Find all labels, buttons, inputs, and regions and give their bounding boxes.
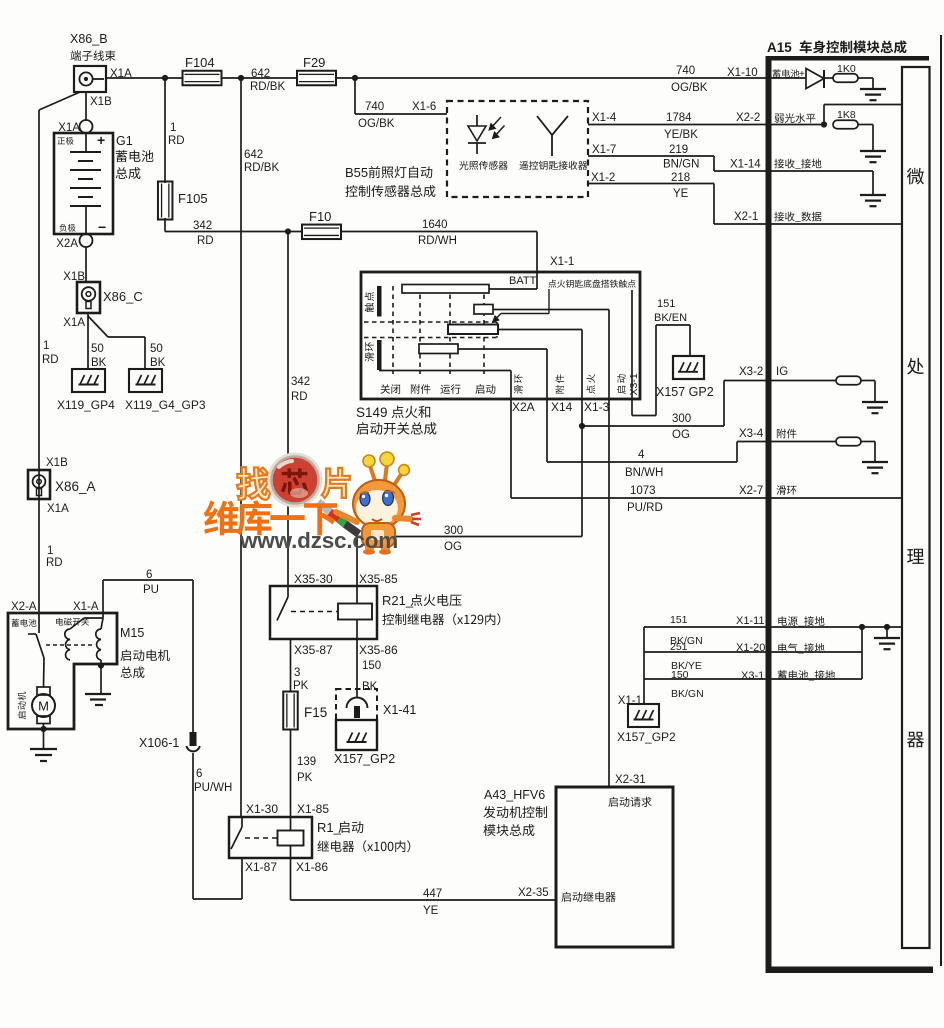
svg-text:X1-20: X1-20 <box>736 642 765 654</box>
svg-text:X86_B: X86_B <box>70 32 108 46</box>
svg-text:−: − <box>98 219 106 235</box>
svg-text:BN/GN: BN/GN <box>663 159 699 171</box>
svg-text:1: 1 <box>47 545 53 557</box>
svg-text:X1-A: X1-A <box>73 601 99 613</box>
svg-text:447: 447 <box>423 888 442 900</box>
svg-text:X86_C: X86_C <box>103 289 143 304</box>
svg-text:X119_G4_GP3: X119_G4_GP3 <box>125 398 206 412</box>
svg-text:RD: RD <box>291 391 308 403</box>
svg-text:218: 218 <box>671 172 690 184</box>
svg-text:150: 150 <box>362 660 381 672</box>
svg-text:X157_GP2: X157_GP2 <box>334 752 395 766</box>
svg-text:X1-86: X1-86 <box>296 860 328 874</box>
svg-text:M15: M15 <box>120 626 144 640</box>
svg-text:X3-1: X3-1 <box>628 373 640 395</box>
svg-text:50: 50 <box>150 343 163 355</box>
svg-text:342: 342 <box>193 220 212 232</box>
svg-text:X1-3: X1-3 <box>584 400 610 414</box>
svg-text:OG: OG <box>672 429 690 441</box>
svg-text:219: 219 <box>669 144 688 156</box>
svg-text:X1B: X1B <box>63 271 85 283</box>
svg-text:X2A: X2A <box>56 238 78 250</box>
svg-text:X2A: X2A <box>512 400 535 414</box>
svg-text:151: 151 <box>670 614 688 626</box>
svg-text:6: 6 <box>196 768 202 780</box>
svg-text:A43_HFV6: A43_HFV6 <box>484 788 545 802</box>
svg-text:X1-11: X1-11 <box>736 615 765 627</box>
svg-text:1K8: 1K8 <box>837 109 856 121</box>
svg-text:X1-2: X1-2 <box>591 172 615 184</box>
svg-text:1784: 1784 <box>666 112 692 124</box>
svg-text:X1-6: X1-6 <box>412 101 436 113</box>
svg-text:X1-87: X1-87 <box>245 860 277 874</box>
svg-text:+: + <box>97 132 105 148</box>
svg-text:M: M <box>38 699 49 714</box>
svg-text:OG/BK: OG/BK <box>671 82 708 94</box>
svg-text:X1-30: X1-30 <box>246 802 278 816</box>
svg-text:PU/RD: PU/RD <box>627 502 663 514</box>
svg-text:PK: PK <box>293 680 309 692</box>
svg-text:1: 1 <box>170 122 176 134</box>
svg-text:X86_A: X86_A <box>55 479 96 494</box>
svg-text:X35-30: X35-30 <box>294 572 333 586</box>
svg-text:YE: YE <box>423 905 439 917</box>
svg-text:1073: 1073 <box>630 485 656 497</box>
svg-text:642: 642 <box>244 149 263 161</box>
svg-text:RD/BK: RD/BK <box>244 162 279 174</box>
svg-text:X3-2: X3-2 <box>739 366 763 378</box>
svg-text:1640: 1640 <box>422 219 448 231</box>
svg-text:F104: F104 <box>185 55 215 70</box>
svg-text:342: 342 <box>291 376 310 388</box>
svg-text:X2-A: X2-A <box>11 601 37 613</box>
svg-text:X35-85: X35-85 <box>359 572 398 586</box>
svg-text:150: 150 <box>671 669 689 681</box>
svg-text:PK: PK <box>297 772 313 784</box>
svg-text:X14: X14 <box>551 400 573 414</box>
svg-text:X106-1: X106-1 <box>139 736 179 750</box>
svg-text:X157_GP2: X157_GP2 <box>617 730 676 744</box>
svg-text:BN/WH: BN/WH <box>625 467 663 479</box>
svg-text:BK: BK <box>362 681 378 693</box>
svg-text:RD/BK: RD/BK <box>250 81 285 93</box>
svg-text:X1-1: X1-1 <box>550 256 574 268</box>
svg-text:OG: OG <box>444 541 462 553</box>
svg-text:YE/BK: YE/BK <box>664 129 698 141</box>
svg-text:RD: RD <box>46 557 63 569</box>
svg-text:F10: F10 <box>309 209 331 224</box>
svg-text:X2-7: X2-7 <box>739 485 763 497</box>
svg-text:1K0: 1K0 <box>837 63 856 75</box>
svg-text:X1-10: X1-10 <box>727 67 758 79</box>
svg-text:1: 1 <box>43 340 49 352</box>
svg-text:S149: S149 <box>356 405 388 420</box>
svg-text:139: 139 <box>297 756 316 768</box>
svg-text:X2-35: X2-35 <box>518 887 549 899</box>
svg-text:X1B: X1B <box>46 457 68 469</box>
svg-text:OG/BK: OG/BK <box>358 118 395 130</box>
svg-text:6: 6 <box>146 569 152 581</box>
svg-text:BK: BK <box>150 357 166 369</box>
svg-text:740: 740 <box>365 101 384 113</box>
svg-text:A15: A15 <box>767 40 792 55</box>
svg-text:R21_: R21_ <box>382 593 414 608</box>
svg-text:R1_: R1_ <box>317 820 342 835</box>
svg-text:X1-41: X1-41 <box>383 703 416 717</box>
svg-text:642: 642 <box>251 68 270 80</box>
svg-text:X1A: X1A <box>47 503 69 515</box>
svg-text:300: 300 <box>444 525 463 537</box>
svg-text:X3-4: X3-4 <box>739 428 764 440</box>
svg-text:RD: RD <box>42 354 59 366</box>
svg-text:300: 300 <box>672 413 691 425</box>
svg-text:50: 50 <box>91 343 104 355</box>
svg-text:X1-4: X1-4 <box>592 112 617 124</box>
svg-text:X1-7: X1-7 <box>592 144 616 156</box>
svg-text:X35-87: X35-87 <box>294 643 333 657</box>
svg-text:X3-1: X3-1 <box>741 670 764 682</box>
svg-text:740: 740 <box>676 65 695 77</box>
svg-text:F29: F29 <box>303 55 325 70</box>
svg-text:X1-14: X1-14 <box>730 159 761 171</box>
svg-text:F105: F105 <box>178 191 208 206</box>
svg-text:RD/WH: RD/WH <box>418 235 457 247</box>
svg-text:251: 251 <box>670 641 688 653</box>
svg-text:BK: BK <box>91 357 107 369</box>
svg-text:X1A: X1A <box>110 68 132 80</box>
svg-text:BK/EN: BK/EN <box>654 312 687 324</box>
svg-text:151: 151 <box>657 298 675 310</box>
svg-text:X119_GP4: X119_GP4 <box>57 398 115 412</box>
svg-text:3: 3 <box>294 667 300 679</box>
svg-text:RD: RD <box>168 135 185 147</box>
svg-text:X1A: X1A <box>63 317 85 329</box>
svg-text:www.dzsc.com: www.dzsc.com <box>239 528 398 553</box>
svg-text:BK/GN: BK/GN <box>671 688 704 700</box>
svg-text:X35-86: X35-86 <box>359 643 398 657</box>
svg-text:X2-31: X2-31 <box>615 774 646 786</box>
svg-text:BATT: BATT <box>509 275 537 287</box>
svg-text:RD: RD <box>197 235 214 247</box>
svg-text:PU/WH: PU/WH <box>194 782 232 794</box>
svg-text:X2-2: X2-2 <box>736 112 760 124</box>
svg-text:+: + <box>799 69 805 80</box>
svg-text:B55: B55 <box>345 165 368 180</box>
svg-text:G1: G1 <box>116 134 133 148</box>
svg-text:F15: F15 <box>304 705 327 720</box>
svg-text:X1A: X1A <box>58 122 80 134</box>
svg-text:PU: PU <box>143 584 159 596</box>
svg-text:X1-85: X1-85 <box>297 802 329 816</box>
svg-text:X1B: X1B <box>90 96 112 108</box>
svg-text:X2-1: X2-1 <box>734 211 758 223</box>
svg-text:X157 GP2: X157 GP2 <box>656 385 714 399</box>
svg-text:X1-1: X1-1 <box>618 695 642 707</box>
svg-text:4: 4 <box>638 449 645 461</box>
svg-text:YE: YE <box>673 188 689 200</box>
svg-text:IG: IG <box>776 366 788 378</box>
